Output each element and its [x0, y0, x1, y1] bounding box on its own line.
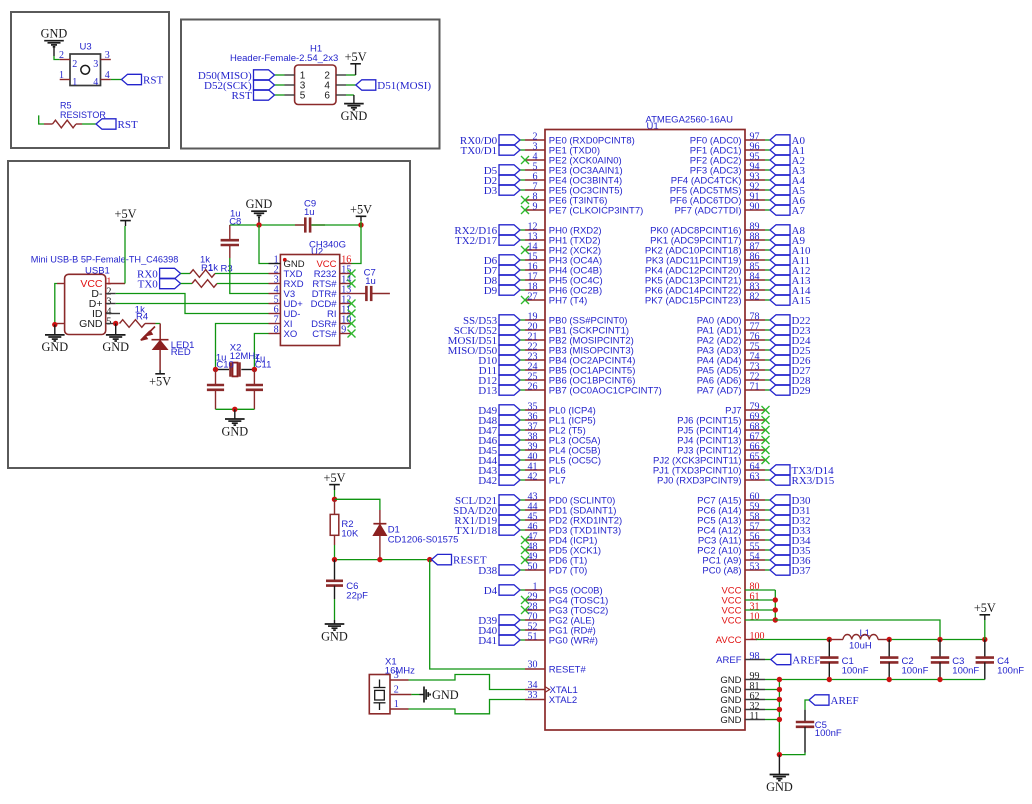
svg-text:PB7 (OC0AOC1CPCINT7): PB7 (OC0AOC1CPCINT7) — [549, 385, 662, 396]
U1 pin 11 GND — [745, 719, 765, 721]
wire U1 pin 90 — [765, 209, 770, 211]
U1 pin 46 PD3 (TXD1INT3) — [525, 529, 545, 531]
node AREF (C5) — [809, 695, 829, 705]
wire U3 pin 4 to RST — [111, 79, 122, 81]
wire GND to U2 pin1 — [259, 225, 269, 264]
ground GND (USB shell) — [45, 325, 65, 341]
no-connect X U1 pin 9 — [521, 206, 529, 214]
capacitor C3 100nF — [939, 640, 941, 658]
wire X1 pin2 to GND — [411, 694, 419, 696]
node D42 — [499, 475, 520, 485]
node D41 — [499, 635, 520, 645]
junction +5V/R2 — [332, 497, 337, 502]
svg-text:GND: GND — [41, 340, 68, 354]
wire C6 to GND — [334, 599, 336, 620]
U2 pin 4 V3 — [269, 293, 281, 295]
svg-text:22pF: 22pF — [346, 590, 368, 601]
node A11 — [770, 255, 790, 265]
node D2 — [499, 175, 520, 185]
svg-text:PF7 (ADC7TDI): PF7 (ADC7TDI) — [674, 205, 741, 216]
wire U1 pin 12 — [520, 229, 525, 231]
U1 pin 28 PG3 (TOSC2) — [525, 609, 545, 611]
U1 pin 36 PL1 (ICP5) — [525, 419, 545, 421]
no-connect X U2 pin 15 — [348, 270, 356, 278]
node D7 — [499, 265, 520, 275]
wire U1 pin 91 — [765, 199, 770, 201]
power +5V (CH340) — [356, 215, 367, 217]
U1 pin 53 PC0 (A8) — [745, 569, 765, 571]
wire U1 pin 58 — [765, 519, 770, 521]
U1 pin 87 PK2 (ADC10PCINT18) — [745, 249, 765, 251]
wire U1 pin 59 — [765, 509, 770, 511]
node D31 — [770, 505, 790, 515]
junction VCC 10 — [773, 617, 778, 622]
junction C1 top — [827, 637, 832, 642]
U2 pin 8 XO — [269, 333, 281, 335]
U1 pin 88 PK1 (ADC9PCINT17) — [745, 239, 765, 241]
junction VCC 61 — [773, 597, 778, 602]
junction GND pin 1 — [777, 687, 782, 692]
U1 pin 49 PD6 (T1) — [525, 559, 545, 561]
U1 pin 83 PK6 (ADC14PCINT22) — [745, 289, 765, 291]
junction VCC 31 — [773, 607, 778, 612]
U1 pin 100 AVCC — [745, 639, 757, 641]
U1 pin 34 XTAL1 — [525, 689, 545, 691]
junction GND pin 4 — [777, 717, 782, 722]
node D22 — [770, 315, 790, 325]
svg-text:PD7 (T0): PD7 (T0) — [549, 565, 588, 576]
wire H1 pin3 — [275, 84, 285, 86]
node TX0 — [160, 278, 181, 288]
svg-text:26: 26 — [528, 381, 538, 392]
node RX0 — [160, 268, 181, 278]
node D11 — [499, 365, 520, 375]
no-connect X U1 pin 27 — [521, 296, 529, 304]
junction USB pin5 — [113, 321, 118, 326]
node D47 — [499, 425, 520, 435]
power +5V (H1) — [350, 63, 361, 65]
node D6 — [499, 255, 520, 265]
U1 pin 5 PE3 (OC3AAIN1) — [525, 169, 545, 171]
svg-text:AREF: AREF — [716, 655, 742, 666]
node TX3/D14 — [770, 465, 790, 475]
junction GND top — [256, 222, 261, 227]
wire U1 pin 36 — [520, 419, 525, 421]
no-connect X U1 pin 28 — [521, 606, 529, 614]
node A6 — [770, 195, 790, 205]
no-connect X U1 pin 8 — [521, 196, 529, 204]
svg-text:3: 3 — [93, 59, 98, 70]
svg-text:3: 3 — [105, 50, 110, 61]
wire AVCC to +5V — [889, 639, 985, 641]
svg-text:D41: D41 — [478, 635, 497, 647]
wire U1 pin 76 — [765, 339, 770, 341]
wire R5 to RST — [82, 123, 96, 125]
wire X2 caps to GND — [216, 408, 255, 410]
svg-text:+5V: +5V — [974, 601, 996, 615]
wire X1 pin1 to XTAL2 — [409, 700, 526, 714]
U2 pin 9 CTS# — [340, 333, 352, 335]
node D32 — [770, 515, 790, 525]
node D37 — [770, 565, 790, 575]
svg-text:AREF: AREF — [792, 654, 820, 666]
wire U1 pin 41 — [520, 469, 525, 471]
node A9 — [770, 235, 790, 245]
U1 pin 58 PC5 (A13) — [745, 519, 765, 521]
wire U1 pin 75 — [765, 349, 770, 351]
LED LED1 RED — [159, 324, 161, 340]
node A3 — [770, 165, 790, 175]
ground GND (C6) — [325, 620, 345, 630]
svg-text:53: 53 — [750, 561, 760, 572]
U1 pin 70 PG2 (ALE) — [525, 619, 545, 621]
section frame (U3/R5) — [11, 12, 169, 148]
svg-text:XTAL2: XTAL2 — [549, 695, 577, 706]
U2 pin 16 VCC — [340, 263, 352, 265]
wire U1 pin 26 — [520, 389, 525, 391]
U1 pin 27 PH7 (T4) — [525, 299, 545, 301]
svg-text:RED: RED — [171, 347, 191, 358]
wire U1 pin 72 — [765, 379, 770, 381]
U1 pin 71 PA7 (AD7) — [745, 389, 765, 391]
node D45 — [499, 445, 520, 455]
node D23 — [770, 325, 790, 335]
U1 pin 52 PG1 (RD#) — [525, 629, 545, 631]
svg-text:D38: D38 — [478, 565, 497, 577]
node A15 — [770, 295, 790, 305]
U1 pin 79 PJ7 — [745, 409, 765, 411]
node D34 — [770, 535, 790, 545]
wire U2 XI to X2 — [216, 324, 269, 370]
no-connect X U1 pin 4 — [521, 156, 529, 164]
U1 pin 9 PE7 (CLKOICP3INT7) — [525, 209, 545, 211]
wire U1 pin 39 — [520, 449, 525, 451]
wire U1 pin 20 — [520, 329, 525, 331]
svg-text:TX1/D18: TX1/D18 — [455, 525, 498, 537]
junction X2 right — [252, 367, 257, 372]
wire U1 pin 13 — [520, 239, 525, 241]
U1 pin 4 PE2 (XCK0AIN0) — [525, 159, 545, 161]
wire U1 pin 85 — [765, 269, 770, 271]
node RST (R5) — [96, 119, 116, 129]
U1 pin 55 PC2 (A10) — [745, 549, 765, 551]
node D51(MOSI) — [356, 80, 376, 90]
wire +5V to USB VCC — [125, 221, 127, 226]
svg-text:1: 1 — [72, 77, 77, 88]
svg-text:11: 11 — [750, 711, 760, 722]
U1 pin 33 XTAL2 — [525, 699, 545, 701]
wire H1 pin1 — [275, 74, 285, 76]
U2 pin 15 R232 — [340, 273, 352, 275]
U2 pin 12 DCD# — [340, 303, 352, 305]
svg-text:100nF: 100nF — [815, 728, 842, 739]
svg-text:33: 33 — [528, 690, 538, 701]
svg-text:10K: 10K — [341, 529, 359, 540]
svg-text:R3: R3 — [221, 264, 233, 275]
wire U1 pin 77 — [765, 329, 770, 331]
U1 pin 48 PD5 (XCK1) — [525, 549, 545, 551]
no-connect X U2 pin 11 — [348, 310, 356, 318]
U1 pin 15 PH3 (OC4A) — [525, 259, 545, 261]
wire U1 pin 51 — [520, 639, 525, 641]
svg-text:D9: D9 — [484, 285, 498, 297]
U1 pin 68 PJ5 (PCINT14) — [745, 429, 765, 431]
svg-text:D13: D13 — [478, 385, 497, 397]
svg-text:42: 42 — [528, 471, 538, 482]
U1 pin 78 PA0 (AD0) — [745, 319, 765, 321]
wire U1 pin 60 — [765, 499, 770, 501]
ground GND (bottom) — [770, 755, 790, 781]
no-connect X U1 pin 29 — [521, 596, 529, 604]
svg-text:AREF: AREF — [831, 695, 859, 707]
svg-text:C10: C10 — [216, 359, 233, 370]
node D38 — [499, 565, 520, 575]
node A10 — [770, 245, 790, 255]
U1 pin 97 PF0 (ADC0) — [745, 139, 765, 141]
wire U1 pin 2 — [520, 139, 525, 141]
node D30 — [770, 495, 790, 505]
node D50(MISO) — [254, 70, 275, 80]
wire U1 pin 89 — [765, 229, 770, 231]
svg-text:RST: RST — [232, 90, 252, 102]
svg-text:R4: R4 — [136, 311, 148, 322]
svg-text:RST: RST — [143, 74, 163, 86]
node D24 — [770, 335, 790, 345]
wire C9 to +5V — [311, 224, 361, 226]
svg-text:PL7: PL7 — [549, 475, 566, 486]
svg-text:TX0: TX0 — [138, 278, 159, 290]
junction D1 — [377, 557, 382, 562]
svg-text:+5V: +5V — [345, 50, 367, 64]
wire U1 pin 50 — [520, 569, 525, 571]
wire LED1 to +5V — [159, 349, 161, 370]
U2 pin 7 XI — [269, 323, 281, 325]
junction C3 bottom — [937, 677, 942, 682]
wire U1 pin 40 — [520, 459, 525, 461]
U1 pin 56 PC3 (A11) — [745, 539, 765, 541]
svg-text:2: 2 — [72, 59, 77, 70]
wire U1 pin 93 — [765, 179, 770, 181]
wire AREF to C5 — [805, 700, 809, 710]
wire U1 pin 1 — [520, 589, 525, 591]
U1 pin 32 GND — [745, 709, 765, 711]
no-connect X U1 pin 68 — [762, 426, 770, 434]
U1 pin 44 PD1 (SDAINT1) — [525, 509, 545, 511]
node D27 — [770, 365, 790, 375]
wire R4 to LED1 — [156, 323, 161, 325]
wire U1 pin 5 — [520, 169, 525, 171]
wire U1 pin 88 — [765, 239, 770, 241]
U1 pin 85 PK4 (ADC12PCINT20) — [745, 269, 765, 271]
svg-text:6: 6 — [324, 91, 330, 102]
svg-text:C11: C11 — [255, 359, 272, 370]
node D25 — [770, 345, 790, 355]
U1 pin 82 PK7 (ADC15PCINT23) — [745, 299, 765, 301]
wire U1 pin 86 — [765, 259, 770, 261]
node A12 — [770, 265, 790, 275]
U1 pin 76 PA2 (AD2) — [745, 339, 765, 341]
node RESET — [432, 554, 452, 564]
wire U1 pin 3 — [520, 149, 525, 151]
ground GND (U3 section) — [44, 41, 64, 56]
U1 pin 43 PD0 (SCLINT0) — [525, 499, 545, 501]
U1 pin 24 PB5 (OC1APCINT5) — [525, 369, 545, 371]
wire U1 pin 74 — [765, 359, 770, 361]
wire U1 pin 73 — [765, 369, 770, 371]
U1 pin 99 GND — [745, 679, 765, 681]
wire H1 pin6 to GND — [346, 94, 354, 96]
node D28 — [770, 375, 790, 385]
U1 pin 26 PB7 (OC0AOC1CPCINT7) — [525, 389, 545, 391]
svg-text:5: 5 — [106, 317, 111, 328]
U1 pin 72 PA6 (AD6) — [745, 379, 765, 381]
svg-text:XO: XO — [284, 329, 298, 340]
wire U1 pin 19 — [520, 319, 525, 321]
power +5V (right) — [980, 614, 991, 616]
no-connect X U1 pin 65 — [762, 456, 770, 464]
wire U1 pin 94 — [765, 169, 770, 171]
wire U1 pin 92 — [765, 189, 770, 191]
U1 pin 75 PA3 (AD3) — [745, 349, 765, 351]
U1 pin 96 PF1 (ADC1) — [745, 149, 765, 151]
wire AVCC — [756, 639, 829, 641]
wire U1 pin 56 — [765, 539, 770, 541]
node TX0/D1 — [499, 145, 520, 155]
svg-text:RST: RST — [118, 119, 138, 131]
wire H1 pin2 to +5V — [346, 74, 356, 76]
svg-text:VCC: VCC — [721, 615, 741, 626]
U1 pin 20 PB1 (SCKPCINT1) — [525, 329, 545, 331]
U1 pin 98 AREF — [745, 659, 765, 661]
svg-text:Mini USB-B 5P-Female-TH_C46398: Mini USB-B 5P-Female-TH_C46398 — [31, 255, 179, 265]
capacitor C1 100nF — [828, 640, 830, 658]
svg-text:GND: GND — [766, 780, 793, 794]
node D4 — [499, 585, 520, 595]
node D36 — [770, 555, 790, 565]
svg-text:PJ0 (RXD3PCINT9): PJ0 (RXD3PCINT9) — [657, 475, 741, 486]
svg-text:71: 71 — [750, 381, 760, 392]
wire R5 left — [39, 115, 44, 124]
svg-text:GND: GND — [720, 715, 741, 726]
wire U1 pin 53 — [765, 569, 770, 571]
node MOSI/D51 — [499, 335, 520, 345]
wire H1 pin5 — [275, 94, 285, 96]
svg-text:R5: R5 — [60, 101, 72, 111]
U1 pin 66 PJ3 (PCINT12) — [745, 449, 765, 451]
junction C3/VCC — [937, 637, 942, 642]
svg-text:1u: 1u — [365, 276, 376, 287]
node A14 — [770, 285, 790, 295]
svg-text:+5V: +5V — [149, 375, 171, 389]
wire GND rail — [779, 679, 984, 681]
node A8 — [770, 225, 790, 235]
U1 pin 38 PL3 (OC5A) — [525, 439, 545, 441]
wire U1 pin 22 — [520, 349, 525, 351]
svg-text:50: 50 — [528, 561, 538, 572]
wire R3 to U2 RXD — [217, 283, 269, 285]
U1 pin 17 PH5 (OC4C) — [525, 279, 545, 281]
junction +5V/C9 — [358, 222, 363, 227]
U2 pin 2 TXD — [269, 273, 281, 275]
svg-text:TX0/D1: TX0/D1 — [461, 145, 498, 157]
node D9 — [499, 285, 520, 295]
wire RESET net — [335, 559, 430, 561]
U1 pin 37 PL2 (T5) — [525, 429, 545, 431]
svg-text:GND: GND — [79, 318, 103, 330]
node SCK/D52 — [499, 325, 520, 335]
junction USB shell — [52, 322, 57, 327]
node SDA/D20 — [499, 505, 520, 515]
wire U1 pin 25 — [520, 379, 525, 381]
no-connect X U1 pin 67 — [762, 436, 770, 444]
U1 pin 22 PB3 (MISOPCINT3) — [525, 349, 545, 351]
svg-text:5: 5 — [300, 91, 306, 102]
node D44 — [499, 455, 520, 465]
node D52(SCK) — [254, 80, 275, 90]
U2 pin 1 GND — [269, 263, 281, 265]
ground GND (X2) — [225, 409, 245, 425]
node RST (H1) — [254, 90, 275, 100]
svg-text:1k: 1k — [208, 263, 218, 274]
svg-text:+5V: +5V — [324, 471, 346, 485]
ground GND (USB pin5) — [106, 324, 126, 342]
no-connect X U2 pin 10 — [348, 320, 356, 328]
U2 pin 10 DSR# — [340, 323, 352, 325]
section frame (H1) — [181, 20, 440, 149]
wire U1 pin 54 — [765, 559, 770, 561]
svg-text:CTS#: CTS# — [312, 329, 337, 340]
U1 pin 67 PJ4 (PCINT13) — [745, 439, 765, 441]
wire U1 pin 97 — [765, 139, 770, 141]
node D35 — [770, 545, 790, 555]
no-connect X U1 pin 69 — [762, 416, 770, 424]
svg-text:PA7 (AD7): PA7 (AD7) — [697, 385, 742, 396]
ground GND (top) — [251, 211, 267, 225]
power +5V (USB) — [120, 220, 131, 222]
wire C5 to GND — [779, 753, 805, 755]
node D29 — [770, 385, 790, 395]
wire VCC bus — [745, 589, 775, 591]
wire U1 pin 45 — [520, 519, 525, 521]
node A5 — [770, 185, 790, 195]
U1 pin 47 PD4 (ICP1) — [525, 539, 545, 541]
svg-text:1: 1 — [59, 70, 64, 81]
svg-text:PG0 (WR#): PG0 (WR#) — [549, 635, 598, 646]
svg-text:U3: U3 — [80, 42, 92, 53]
svg-text:PH7 (T4): PH7 (T4) — [549, 295, 588, 306]
U1 pin 50 PD7 (T0) — [525, 569, 545, 571]
svg-text:63: 63 — [750, 471, 760, 482]
svg-text:RX3/D15: RX3/D15 — [792, 475, 835, 487]
U1 pin 89 PK0 (ADC8PCINT16) — [745, 229, 765, 231]
U1 pin 64 PJ1 (TXD3PCINT10) — [745, 469, 765, 471]
wire U1 pin 35 — [520, 409, 525, 411]
node RX0/D0 — [499, 135, 520, 145]
wire U1 pin 46 — [520, 529, 525, 531]
U1 pin 8 PE6 (T3INT6) — [525, 199, 545, 201]
U1 pin 45 PD2 (RXD1INT2) — [525, 519, 545, 521]
svg-text:PK7 (ADC15PCINT23): PK7 (ADC15PCINT23) — [645, 295, 742, 306]
svg-text:10uH: 10uH — [849, 640, 872, 651]
svg-text:CD1206-S01575: CD1206-S01575 — [388, 534, 459, 545]
wire U1 pin 57 — [765, 529, 770, 531]
node A13 — [770, 275, 790, 285]
svg-text:GND: GND — [321, 629, 348, 643]
junction GND pin 2 — [777, 697, 782, 702]
U1 pin 2 PE0 (RXD0PCINT8) — [525, 139, 545, 141]
U1 pin 39 PL4 (OC5B) — [525, 449, 545, 451]
U1 pin 57 PC4 (A12) — [745, 529, 765, 531]
